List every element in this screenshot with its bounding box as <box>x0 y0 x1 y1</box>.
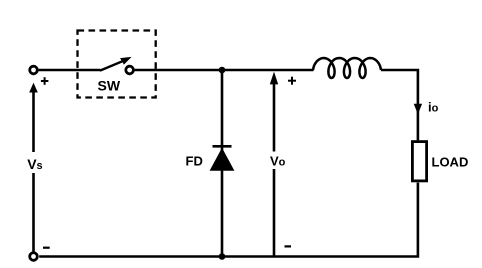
svg-text:SW: SW <box>98 78 121 94</box>
Vo arrow head (up) <box>270 72 278 85</box>
junction node bottom of diode <box>219 253 226 260</box>
diode FD triangle <box>210 148 235 171</box>
dashed box around SW <box>78 31 156 98</box>
svg-text:Vo: Vo <box>270 154 286 169</box>
plus sign Vo <box>288 77 296 85</box>
wire top rail left (to switch) <box>38 69 101 72</box>
junction node top of diode <box>219 67 226 74</box>
wire Vs branch lower segment <box>32 173 35 252</box>
switch contact circle <box>126 66 134 74</box>
inductor L <box>313 58 381 78</box>
svg-text:LOAD: LOAD <box>432 155 469 170</box>
terminal circle top-left (Vs +) <box>30 66 38 74</box>
wire Vo upper segment <box>273 84 276 152</box>
switch lever <box>100 61 124 71</box>
plus sign Vs <box>41 77 49 85</box>
diode FD cathode bar <box>213 145 232 148</box>
svg-text:FD: FD <box>186 154 203 169</box>
wire top rail right of switch <box>134 69 314 72</box>
svg-text:Vs: Vs <box>27 156 42 172</box>
Vs arrow head (up) <box>29 83 38 93</box>
resistor LOAD box <box>412 142 426 181</box>
wire Vo lower segment <box>273 169 276 257</box>
wire load bottom / bottom rail <box>39 183 418 257</box>
wire Vs branch upper segment <box>32 92 35 153</box>
minus sign Vs <box>43 247 50 249</box>
io arrow head (down) <box>414 104 422 115</box>
svg-text:io: io <box>428 100 439 115</box>
wire top rail to right corner and down <box>381 70 418 140</box>
switch lever arrow head <box>120 57 132 65</box>
terminal circle bottom-left (Vs -) <box>30 253 38 261</box>
minus sign Vo <box>285 245 292 247</box>
wire diode branch <box>221 70 224 257</box>
